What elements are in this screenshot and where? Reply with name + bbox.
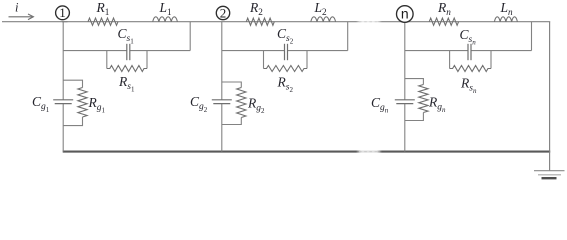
svg-text:Csn: Csn xyxy=(460,27,477,47)
capacitor Csn xyxy=(468,44,471,60)
svg-text:Cg1: Cg1 xyxy=(32,94,50,114)
wire shunt vertical upper section n xyxy=(404,22,406,100)
node 2 xyxy=(216,5,229,20)
svg-text:Rg1: Rg1 xyxy=(88,95,106,115)
svg-text:Rgn: Rgn xyxy=(428,95,446,115)
svg-text:R1: R1 xyxy=(96,0,110,17)
svg-text:Rg2: Rg2 xyxy=(247,96,265,116)
capacitor Cs2 xyxy=(285,44,288,60)
wire top rail continuation fade xyxy=(356,20,382,24)
wire Rgn loop top xyxy=(405,79,424,85)
wire Rsn loop left side xyxy=(449,51,451,69)
wire shunt vertical upper section 2 xyxy=(221,22,223,100)
svg-text:R2: R2 xyxy=(249,0,263,17)
svg-text:n: n xyxy=(401,5,409,21)
wire Rg2 loop bottom xyxy=(222,118,242,125)
svg-text:Rs1: Rs1 xyxy=(118,74,135,94)
svg-text:Cs1: Cs1 xyxy=(118,26,135,46)
resistor Rs1 xyxy=(107,66,147,72)
wire Rs1 loop right side xyxy=(146,51,148,69)
wire ground stem xyxy=(549,152,551,171)
wire Rs1 loop left side xyxy=(106,51,108,69)
resistor Rs2 xyxy=(264,66,308,72)
wire branch horizontal right section 1 xyxy=(130,50,190,52)
svg-text:Cg2: Cg2 xyxy=(190,94,208,114)
wire bottom rail continuation fade xyxy=(356,149,382,154)
resistor Rn xyxy=(429,18,458,25)
capacitor Cg1 xyxy=(53,100,73,104)
wire Rgn loop bottom xyxy=(405,113,424,121)
wire right outer vertical xyxy=(549,22,551,152)
resistor Rg2 xyxy=(237,88,246,118)
svg-text:2: 2 xyxy=(220,5,227,20)
resistor Rsn xyxy=(450,66,491,72)
wire branch horizontal right section 2 xyxy=(288,50,348,52)
ground xyxy=(534,171,565,179)
svg-text:Cgn: Cgn xyxy=(371,95,389,115)
wire branch horizontal left section 2 xyxy=(222,50,285,52)
resistor Rg1 xyxy=(78,88,87,118)
wire branch right vertical section n xyxy=(531,22,533,51)
svg-text:Cs2: Cs2 xyxy=(277,26,294,46)
wire branch horizontal left section 1 xyxy=(63,50,127,52)
wire branch horizontal right section n xyxy=(471,50,532,52)
wire Rg2 loop top xyxy=(222,82,242,88)
capacitor Cgn xyxy=(395,100,415,104)
capacitor Cs1 xyxy=(127,44,130,60)
svg-text:Rn: Rn xyxy=(437,0,451,17)
node 1 xyxy=(56,5,70,20)
wire branch right vertical section 1 xyxy=(189,22,191,51)
wire Rs2 loop left side xyxy=(263,51,265,69)
node n xyxy=(397,5,414,22)
capacitor Cg2 xyxy=(212,100,232,104)
wire Rsn loop right side xyxy=(490,51,492,69)
resistor Rgn xyxy=(419,85,428,113)
resistor R2 xyxy=(246,18,274,25)
inductor L1 xyxy=(153,17,178,22)
wire shunt vertical lower section n xyxy=(404,104,406,152)
inductor L2 xyxy=(311,17,336,22)
svg-text:Rs2: Rs2 xyxy=(277,75,294,95)
svg-text:Ln: Ln xyxy=(500,0,514,17)
wire input lead xyxy=(2,21,68,23)
current arrow i xyxy=(9,14,34,20)
wire Rg1 loop bottom xyxy=(63,117,82,126)
wire branch horizontal left section n xyxy=(405,50,468,52)
wire Rg1 loop top xyxy=(63,80,82,87)
svg-text:i: i xyxy=(15,1,19,15)
wire shunt vertical upper section 1 xyxy=(62,22,64,100)
svg-text:L2: L2 xyxy=(314,0,328,17)
wire shunt vertical lower section 1 xyxy=(62,104,64,152)
wire branch right vertical section 2 xyxy=(347,22,349,51)
svg-text:1: 1 xyxy=(59,5,66,20)
wire bottom rail xyxy=(63,151,551,153)
wire shunt vertical lower section 2 xyxy=(221,104,223,152)
wire Rs2 loop right side xyxy=(306,51,308,69)
wire top rail xyxy=(62,21,550,23)
svg-text:Rsn: Rsn xyxy=(460,76,477,96)
resistor R1 xyxy=(88,18,118,25)
svg-text:L1: L1 xyxy=(159,0,173,17)
inductor Ln xyxy=(494,17,517,22)
